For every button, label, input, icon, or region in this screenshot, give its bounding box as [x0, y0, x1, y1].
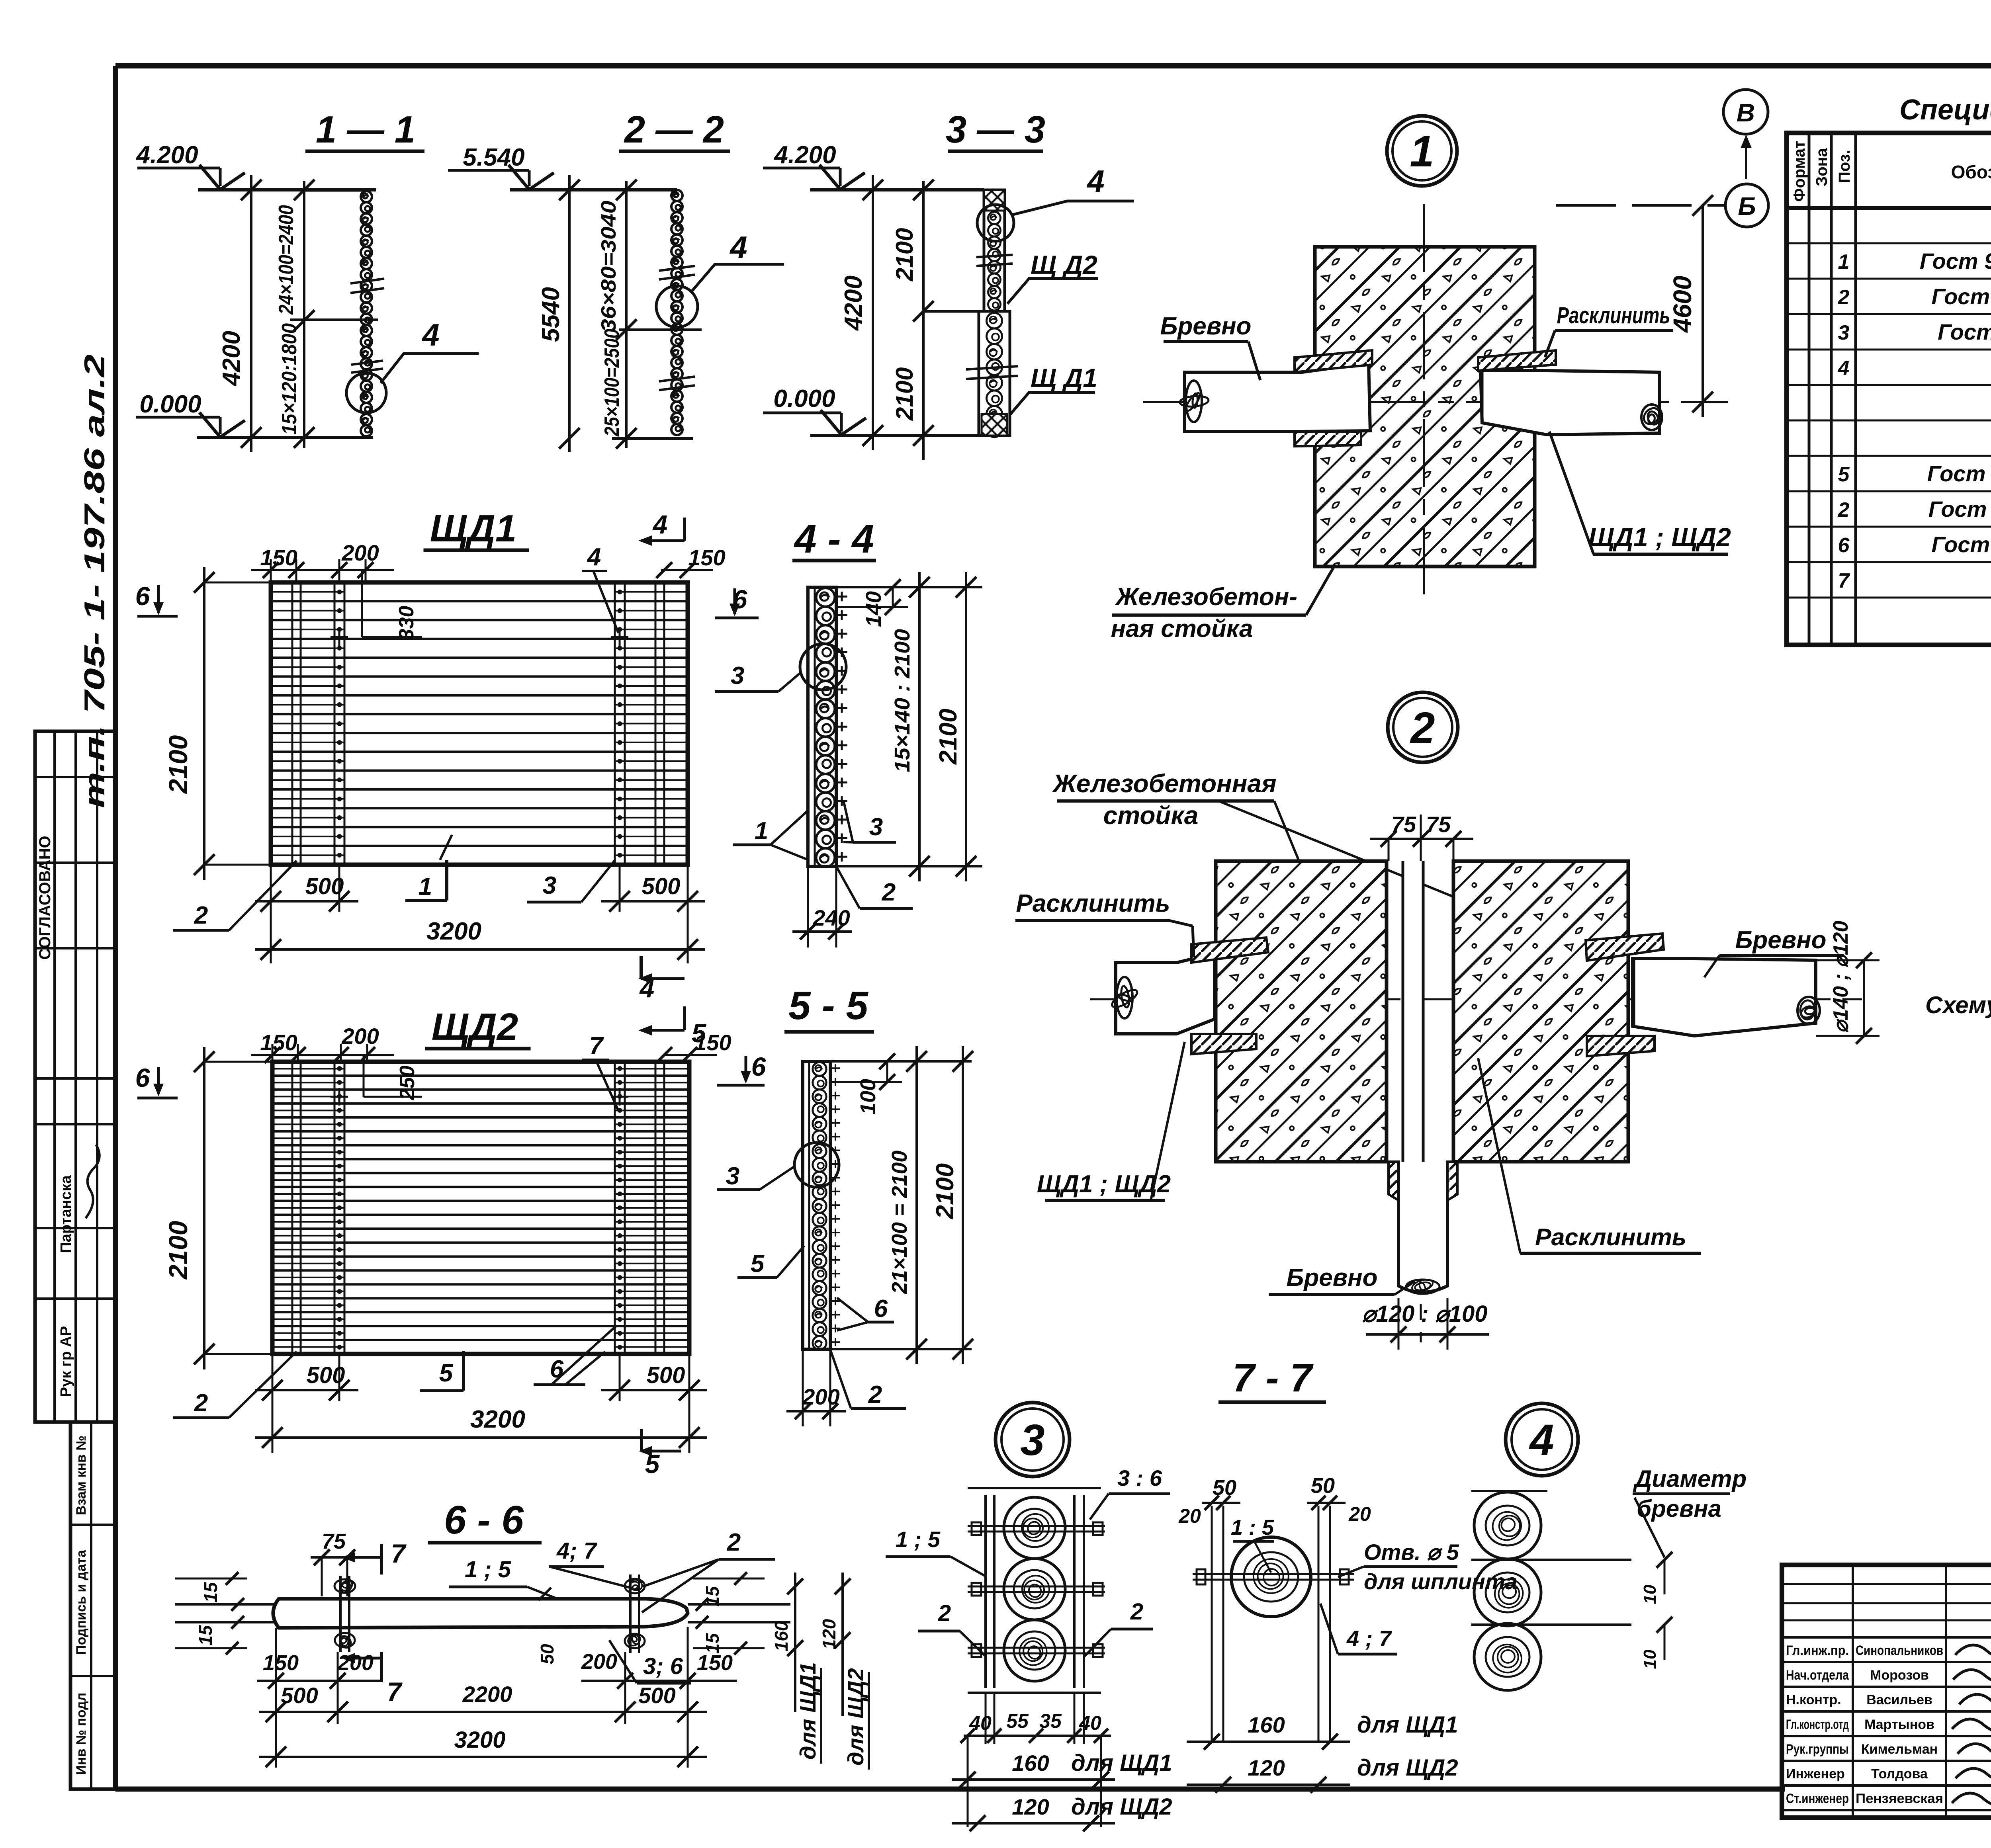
svg-text:4; 7: 4; 7: [556, 1538, 598, 1564]
svg-text:2: 2: [727, 1529, 741, 1556]
svg-text:150: 150: [694, 1030, 731, 1055]
svg-text:0.000: 0.000: [139, 391, 201, 418]
svg-text:Синопальников: Синопальников: [1856, 1643, 1943, 1658]
wedges at bottom joint (detail 2): [1389, 1162, 1398, 1200]
left sidebar attribute table (upper, 4 columns): [35, 731, 115, 1422]
left log (detail 2): [1116, 953, 1215, 1034]
svg-text:3: 3: [1838, 321, 1850, 344]
dim 120 dlya SchD2 (detail 3): [952, 1822, 1115, 1825]
svg-text:Мартынов: Мартынов: [1864, 1717, 1934, 1732]
svg-text:4600: 4600: [1668, 276, 1697, 333]
svg-text:2100: 2100: [931, 1163, 959, 1219]
svg-text:4 - 4: 4 - 4: [794, 517, 874, 561]
svg-text:140: 140: [862, 591, 886, 627]
svg-text:150: 150: [263, 1651, 299, 1675]
wedge above left log (detail 2): [1191, 938, 1268, 963]
svg-text:Б: Б: [1738, 192, 1756, 221]
svg-text:Щ Д2: Щ Д2: [1031, 250, 1097, 279]
svg-text:4: 4: [421, 317, 439, 352]
svg-text:Формат: Формат: [1791, 141, 1808, 201]
svg-text:50: 50: [1311, 1474, 1335, 1498]
svg-text:50: 50: [537, 1644, 557, 1664]
svg-text:3200: 3200: [454, 1727, 505, 1753]
bottom line 2-2: [612, 437, 693, 440]
svg-text:15: 15: [200, 1582, 221, 1603]
svg-text:Расклинить: Расклинить: [1557, 303, 1670, 328]
svg-text:7: 7: [391, 1539, 407, 1568]
svg-text:для ЩД2: для ЩД2: [843, 1668, 868, 1766]
detail badge 2: [1388, 692, 1458, 762]
svg-text:для ЩД2: для ЩД2: [1071, 1794, 1172, 1820]
svg-text:150: 150: [697, 1651, 733, 1675]
svg-text:Диаметр: Диаметр: [1633, 1465, 1747, 1492]
dim 3200 (SchD2): [255, 1436, 707, 1439]
dim line 500/2200/500 (section 6-6): [275, 1628, 277, 1724]
panel ЩД1 margin log-end midlines: [271, 591, 344, 593]
svg-text:15×140 : 2100: 15×140 : 2100: [890, 629, 914, 772]
wedge above right log (detail 1): [1478, 350, 1556, 371]
detail callout circle (section 3-3): [977, 205, 1014, 241]
wall strip (section 5-5): [803, 1061, 830, 1349]
detail callout circle 4 (section 1-1): [346, 373, 386, 413]
svg-text:4200: 4200: [840, 275, 867, 331]
svg-text:160: 160: [771, 1621, 792, 1651]
dim 3200 (SchD1): [255, 948, 705, 951]
dim 4600 (detail 1): [1702, 205, 1704, 417]
svg-text:Схему расположения стен закр: Схему расположения стен закромов см. на …: [1925, 992, 1991, 1018]
svg-text:4: 4: [1529, 1416, 1554, 1465]
bottom dims 500/500 (SchD2): [272, 1354, 274, 1453]
svg-text:1: 1: [755, 817, 768, 845]
svg-text:120: 120: [1248, 1755, 1285, 1780]
svg-text:3 : 6: 3 : 6: [1117, 1465, 1162, 1491]
dim 2100 (section 5-5): [962, 1046, 964, 1364]
dim chain 36x80 / 25x100 (section 2-2): [625, 181, 628, 448]
leaders (detail 2 stoika): [1274, 801, 1310, 888]
svg-text:6 - 6: 6 - 6: [444, 1498, 524, 1542]
title block left signature table: [1852, 1565, 1854, 1818]
svg-text:Железобетон-: Железобетон-: [1115, 583, 1297, 611]
dim 150/200 top left (SchD2): [251, 1054, 394, 1056]
svg-text:36×80=3040: 36×80=3040: [597, 201, 620, 332]
axis marks B and B2: [1723, 90, 1768, 134]
svg-text:15: 15: [195, 1625, 216, 1646]
svg-text:Н.контр.: Н.контр.: [1786, 1692, 1841, 1707]
svg-text:20: 20: [1178, 1505, 1201, 1527]
svg-text:3 — 3: 3 — 3: [946, 108, 1045, 151]
axis dash line (detail 1): [1556, 204, 1725, 207]
svg-text:4: 4: [729, 230, 747, 265]
dim 140 (section 4-4): [892, 587, 894, 607]
label 4 (section 3-3): [1011, 201, 1134, 215]
svg-text:21×100 = 2100: 21×100 = 2100: [888, 1151, 911, 1294]
dim 21x100=2100 (section 5-5): [915, 1046, 918, 1364]
svg-text:Железобетонная: Железобетонная: [1052, 769, 1276, 798]
svg-text:2100: 2100: [891, 367, 918, 421]
logs (detail 3): [1004, 1497, 1065, 1559]
svg-text:Морозов: Морозов: [1870, 1668, 1929, 1683]
svg-text:для ЩД1: для ЩД1: [1357, 1712, 1458, 1738]
svg-text:2: 2: [1410, 703, 1435, 752]
svg-text:2: 2: [938, 1600, 951, 1626]
dim 100 (section 5-5): [886, 1061, 888, 1082]
dim chain 2100/2100 (section 3-3): [922, 181, 925, 460]
svg-text:Гост 9463 — 72*: Гост 9463 — 72*: [1920, 248, 1991, 273]
svg-text:ная стойка: ная стойка: [1111, 615, 1253, 643]
dim 160 dlya SchD1 (detail 3): [967, 1736, 969, 1827]
detail callout circle 4 (section 2-2): [656, 286, 698, 327]
svg-text:0.000: 0.000: [773, 385, 835, 412]
svg-text:160: 160: [1012, 1750, 1049, 1776]
top level line 3-3: [810, 188, 984, 191]
svg-text:Рук гр АР: Рук гр АР: [58, 1326, 74, 1397]
detail callout circle (section 5-5): [794, 1143, 839, 1187]
svg-text:3: 3: [1020, 1416, 1044, 1465]
specification table: [1787, 133, 1991, 645]
svg-text:120: 120: [819, 1619, 839, 1649]
svg-text:120: 120: [1012, 1794, 1049, 1819]
dim 160 dlya SchD1 (section 7-7): [1187, 1741, 1350, 1743]
detail badge 3: [995, 1403, 1070, 1477]
svg-text:6: 6: [1838, 534, 1850, 557]
svg-text:2: 2: [1130, 1599, 1143, 1625]
svg-text:1 ; 5: 1 ; 5: [896, 1527, 941, 1552]
svg-text:24×100=2400: 24×100=2400: [275, 205, 298, 315]
svg-text:3200: 3200: [426, 918, 481, 945]
svg-text:2: 2: [194, 1389, 208, 1417]
panel ЩД2 log lines: [272, 1074, 689, 1077]
svg-text:Кимельман: Кимельман: [1861, 1742, 1938, 1757]
svg-text:2 — 2: 2 — 2: [624, 108, 724, 151]
wedge below left log (detail 1): [1295, 432, 1361, 446]
svg-text:3: 3: [543, 872, 556, 899]
dim 240 (section 4-4): [807, 866, 809, 947]
left tenon (section 6-6): [175, 1603, 277, 1606]
svg-text:Расклинить: Расклинить: [1535, 1224, 1686, 1250]
panel ЩД2 bolt strips with bolt dots: [334, 1062, 336, 1354]
svg-text:Спецификация к щитам ЩД1: Спецификация к щитам ЩД1 ; ЩД2: [1899, 94, 1991, 126]
bolt 2 (section 6-6): [629, 1575, 632, 1653]
svg-text:Пензяевская: Пензяевская: [1856, 1791, 1943, 1806]
svg-text:2: 2: [194, 902, 208, 929]
svg-text:15: 15: [702, 1586, 723, 1607]
svg-text:Нач.отдела: Нач.отдела: [1786, 1668, 1849, 1683]
right log (detail 1): [1481, 371, 1660, 435]
dim 120 dlya SchD2 (section 7-7): [1187, 1784, 1350, 1786]
svg-text:1 ; 5: 1 ; 5: [465, 1557, 511, 1582]
log wall (section 1-1): [304, 189, 366, 192]
bottom dims 500/500 (SchD1): [270, 865, 272, 963]
dim 5540 (section 2-2): [568, 175, 571, 452]
svg-text:500: 500: [307, 1362, 345, 1388]
svg-text:2200: 2200: [462, 1682, 512, 1707]
panel ЩД2 outline: [272, 1062, 689, 1354]
svg-text:4.200: 4.200: [773, 141, 836, 169]
svg-text:4 ; 7: 4 ; 7: [1346, 1626, 1393, 1651]
dim 15x140:2100 (section 4-4): [918, 572, 921, 881]
top/bottom construction lines (section 4-4): [836, 586, 982, 588]
top level line 2-2: [510, 188, 677, 191]
svg-text:5: 5: [751, 1250, 765, 1278]
panel ЩД2 margin log-end midlines: [272, 1068, 344, 1069]
vertical log below joint (detail 2): [1398, 1162, 1447, 1292]
dim 150/200 top left (SchD1): [251, 569, 394, 571]
svg-text:Гост 9463 - 72*: Гост 9463 - 72*: [1927, 461, 1991, 486]
svg-text:330: 330: [395, 606, 418, 641]
svg-text:5: 5: [439, 1360, 454, 1387]
svg-text:Бревно: Бревно: [1286, 1264, 1377, 1291]
svg-text:4: 4: [587, 543, 601, 571]
dim 2100 (section 4-4): [965, 572, 967, 881]
dim 4200 (section 3-3): [872, 175, 874, 450]
left concrete column (detail 2): [1216, 861, 1387, 1162]
svg-text:2100: 2100: [163, 1221, 193, 1280]
svg-text:ЩД1: ЩД1: [430, 507, 517, 550]
svg-text:20: 20: [1348, 1503, 1371, 1525]
dim 4200 (section 1-1): [250, 175, 252, 452]
log wall (section 2-2): [671, 190, 683, 201]
svg-text:4: 4: [1086, 164, 1104, 199]
detail badge 4: [1506, 1403, 1578, 1476]
concrete column (detail 1): [1315, 247, 1535, 567]
svg-text:для ЩД1: для ЩД1: [1071, 1750, 1172, 1776]
svg-text:200: 200: [341, 540, 379, 565]
svg-text:4: 4: [1838, 357, 1850, 380]
svg-text:СОГЛАСОВАНО: СОГЛАСОВАНО: [36, 836, 54, 959]
svg-text:40: 40: [1079, 1712, 1101, 1734]
svg-text:7: 7: [387, 1677, 403, 1706]
bottom level line 3-3: [810, 434, 992, 437]
svg-text:1: 1: [419, 873, 432, 901]
panel ЩД1 bolt strips with bolt dots: [334, 582, 336, 865]
svg-text:3; 6: 3; 6: [643, 1653, 683, 1679]
upper panel edge strip SchD2 (section 3-3): [984, 190, 1005, 311]
bolt 1 (section 6-6): [339, 1576, 342, 1652]
svg-text:2: 2: [1838, 498, 1850, 522]
svg-text:10: 10: [1640, 1584, 1660, 1604]
tick marks (detail 4): [1657, 1552, 1672, 1568]
bolt (section 7-7): [1193, 1573, 1354, 1575]
svg-text:100: 100: [856, 1079, 880, 1115]
svg-text:для ЩД2: для ЩД2: [1357, 1755, 1458, 1781]
detail badge 1: [1387, 116, 1457, 186]
svg-text:160: 160: [1248, 1712, 1285, 1737]
svg-text:2100: 2100: [891, 228, 918, 281]
svg-text:Зона: Зона: [1813, 148, 1831, 186]
main title block: [1782, 1565, 1991, 1818]
svg-text:500: 500: [305, 873, 344, 899]
svg-text:Инв № подл: Инв № подл: [74, 1693, 89, 1775]
svg-text:1: 1: [1838, 250, 1850, 273]
lower panel edge strip SchD1 (section 3-3): [979, 311, 1010, 436]
svg-text:ЩД1 ; ЩД2: ЩД1 ; ЩД2: [1037, 1170, 1171, 1198]
svg-text:⌀140 ; ⌀120: ⌀140 ; ⌀120: [1829, 921, 1852, 1033]
tangent lines (detail 4): [1471, 1490, 1547, 1492]
log body (section 6-6): [273, 1599, 688, 1628]
horizontal axis (detail 2): [1090, 998, 1862, 1000]
svg-text:Бревно: Бревно: [1735, 926, 1826, 954]
svg-text:15: 15: [702, 1633, 723, 1654]
svg-text:500: 500: [281, 1683, 318, 1708]
svg-text:6: 6: [135, 1063, 151, 1092]
svg-text:Рук.группы: Рук.группы: [1786, 1742, 1849, 1757]
svg-text:150: 150: [260, 545, 297, 570]
svg-text:3: 3: [726, 1162, 739, 1190]
svg-text:ЩД1 ; ЩД2: ЩД1 ; ЩД2: [1588, 522, 1731, 552]
svg-text:Взам кнв №: Взам кнв №: [74, 1436, 89, 1515]
right vertical dims dlya SchD1/SchD2 (section 6-6): [794, 1573, 796, 1712]
svg-text:200: 200: [802, 1384, 839, 1409]
svg-text:6: 6: [751, 1052, 767, 1081]
bolt ticks (section 5-5): [830, 1067, 840, 1069]
svg-text:бревна: бревна: [1637, 1495, 1721, 1522]
left sidebar attribute table (lower, 2 columns): [70, 1422, 115, 1789]
svg-text:4.200: 4.200: [135, 141, 198, 169]
svg-text:500: 500: [642, 873, 681, 899]
svg-text:55: 55: [1006, 1710, 1029, 1732]
svg-text:Инженер: Инженер: [1786, 1766, 1845, 1782]
wall strip (section 4-4): [808, 587, 836, 866]
svg-text:10: 10: [1640, 1649, 1660, 1669]
svg-text:2: 2: [1838, 286, 1850, 309]
svg-text:6: 6: [135, 581, 151, 611]
svg-text:500: 500: [647, 1362, 685, 1388]
svg-text:15×120:1800: 15×120:1800: [278, 323, 301, 435]
svg-text:1: 1: [1410, 127, 1434, 176]
svg-text:500: 500: [638, 1683, 675, 1708]
svg-text:Гл.констр.отд: Гл.констр.отд: [1786, 1717, 1849, 1732]
log (section 7-7): [1231, 1537, 1311, 1617]
svg-text:6: 6: [874, 1295, 888, 1323]
svg-text:150: 150: [688, 545, 725, 570]
panel ЩД1 log lines: [271, 600, 688, 602]
svg-text:1 : 5: 1 : 5: [1231, 1516, 1274, 1539]
svg-text:В: В: [1737, 98, 1755, 127]
panel ЩД1 outline: [271, 582, 688, 865]
dim 2100 left (SchD1): [203, 567, 205, 880]
svg-text:50: 50: [1213, 1476, 1236, 1500]
svg-text:2100: 2100: [935, 709, 962, 765]
right concrete column (detail 2): [1453, 861, 1628, 1162]
right tenon (section 6-6): [688, 1603, 790, 1606]
svg-text:150: 150: [260, 1030, 297, 1055]
svg-text:Щ Д1: Щ Д1: [1031, 363, 1097, 393]
planks (detail 3): [984, 1495, 987, 1688]
svg-text:Подпись и дата: Подпись и дата: [74, 1549, 89, 1655]
bottom dims 40/35/35/40 (detail 3): [985, 1693, 987, 1744]
dim 3200 (section 6-6): [275, 1724, 277, 1768]
svg-text:Гост 24454 -80: Гост 24454 -80: [1928, 496, 1991, 522]
svg-text:Толдова: Толдова: [1871, 1766, 1928, 1782]
svg-text:2100: 2100: [163, 735, 193, 794]
svg-text:3: 3: [869, 813, 883, 841]
svg-text:5: 5: [1838, 463, 1850, 486]
svg-text:75: 75: [322, 1530, 346, 1553]
detail callout circle (section 4-4): [800, 644, 846, 690]
logs (detail 4): [1474, 1492, 1541, 1559]
plank lines (section 7-7): [1211, 1506, 1213, 1742]
construction lines (section 5-5): [830, 1060, 972, 1063]
svg-text:для ЩД1: для ЩД1: [795, 1662, 820, 1760]
wedge below left log (detail 2): [1191, 1034, 1256, 1054]
dim 2100 left (SchD2): [203, 1047, 205, 1369]
svg-text:Гост 7798 - 70: Гост 7798 - 70: [1932, 532, 1991, 557]
svg-text:2: 2: [868, 1381, 882, 1408]
log axis centerline (detail 1): [1143, 401, 1724, 403]
svg-text:Расклинить: Расклинить: [1016, 890, 1170, 917]
vertical log between columns (detail 2): [1403, 861, 1423, 1162]
svg-text:75: 75: [1426, 812, 1451, 837]
svg-text:4200: 4200: [218, 331, 245, 387]
wedge above right log (detail 2): [1586, 934, 1664, 961]
dim 200 (section 5-5): [802, 1349, 804, 1426]
taper hatch mark (section 6-6): [538, 1588, 551, 1600]
dim chain 24x100 / 15x120 (section 1-1): [303, 181, 305, 448]
svg-text:5.540: 5.540: [463, 144, 524, 171]
svg-text:Поз.: Поз.: [1836, 150, 1853, 183]
svg-text:7 - 7: 7 - 7: [1232, 1356, 1314, 1400]
bottom level line 1-1: [197, 436, 373, 439]
svg-text:1 — 1: 1 — 1: [316, 108, 415, 151]
vertical centerline (detail 2): [1420, 815, 1422, 1342]
wedge above left log (detail 1): [1295, 350, 1372, 372]
svg-text:т.п. 705- 1- 197.86 ал.2: т.п. 705- 1- 197.86 ал.2: [79, 354, 111, 808]
svg-text:Бревно: Бревно: [1160, 313, 1251, 340]
svg-text:25×100=2500: 25×100=2500: [600, 329, 624, 437]
svg-text:Васильев: Васильев: [1866, 1692, 1932, 1707]
dim 330 and bolt crosses (SchD1): [361, 570, 363, 637]
dim 250 and bolt crosses (SchD2): [363, 1055, 365, 1097]
svg-text:7: 7: [1838, 569, 1850, 592]
svg-text:ЩД2: ЩД2: [432, 1006, 518, 1048]
bolts (detail 3): [968, 1525, 1105, 1527]
svg-text:240: 240: [812, 905, 850, 930]
bolt ticks (section 4-4): [836, 596, 847, 598]
svg-text:Партанска: Партанска: [58, 1175, 74, 1253]
svg-text:200: 200: [341, 1024, 379, 1049]
svg-text:Обозначение: Обозначение: [1951, 162, 1991, 182]
top level line 1-1: [198, 188, 376, 191]
svg-text:3: 3: [731, 662, 744, 690]
panel ЩД2 vertical plank strips: [291, 1062, 293, 1354]
svg-text:4: 4: [652, 510, 668, 539]
svg-text:250: 250: [396, 1066, 419, 1101]
svg-text:Гл.инж.пр.: Гл.инж.пр.: [1786, 1643, 1849, 1658]
svg-text:Гост 24454-80: Гост 24454-80: [1932, 284, 1991, 309]
svg-text:Ст.инженер: Ст.инженер: [1786, 1791, 1849, 1806]
svg-text:3200: 3200: [470, 1406, 525, 1433]
svg-text:2: 2: [882, 879, 896, 906]
svg-text:7: 7: [589, 1032, 604, 1060]
svg-text:стойка: стойка: [1103, 801, 1199, 830]
svg-text:200: 200: [581, 1650, 617, 1674]
svg-text:5 - 5: 5 - 5: [788, 983, 868, 1028]
panel ЩД1 vertical plank strips: [291, 582, 293, 865]
svg-text:5540: 5540: [537, 287, 565, 342]
drawing frame: [115, 63, 1991, 68]
column centerline vertical (detail 1): [1423, 204, 1425, 597]
wedge below right log (detail 2): [1587, 1036, 1655, 1056]
svg-text:⌀120 : ⌀100: ⌀120 : ⌀100: [1362, 1301, 1488, 1327]
svg-text:Гост 7798-70: Гост 7798-70: [1938, 319, 1991, 344]
right log (detail 2): [1633, 959, 1816, 1036]
svg-text:200: 200: [337, 1651, 374, 1675]
svg-text:Отв. ⌀ 5: Отв. ⌀ 5: [1364, 1539, 1459, 1565]
left log (detail 1): [1185, 363, 1370, 432]
